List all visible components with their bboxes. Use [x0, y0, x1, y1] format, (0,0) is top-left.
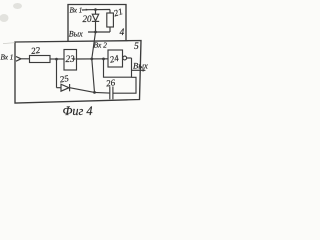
wire: diode 25 to capacitor 26	[70, 88, 95, 93]
wire: node A down to diode 25	[56, 59, 58, 88]
svg-text:Вых: Вых	[69, 30, 83, 39]
wire: to resistor 21 top	[109, 10, 111, 14]
svg-text:Вх 2: Вх 2	[94, 41, 108, 50]
svg-text:Вых: Вых	[133, 60, 148, 70]
wire: junction to capacitor left plate	[95, 91, 110, 94]
wire: input arrow into block 5	[16, 57, 30, 62]
svg-text:Вх 1: Вх 1	[70, 7, 83, 15]
resistor 22	[30, 56, 51, 63]
wire: feedback loop around block 24	[104, 58, 132, 77]
node A junction	[55, 58, 58, 61]
wire: top rail of block 4	[88, 9, 110, 11]
block 5 (main box outline)	[15, 41, 141, 104]
block 24	[108, 50, 123, 67]
svg-text:Вх 1: Вх 1	[1, 54, 14, 62]
wire: resistor 22 to block 23	[50, 58, 64, 60]
block 4 (upper box outline, open bottom shared with block 5 top edge)	[68, 5, 126, 42]
node: junction on output rail	[94, 31, 97, 34]
wire: block 23 to block 24	[77, 58, 109, 60]
wire: to diode 25 anode	[57, 87, 62, 89]
node: bottom junction	[93, 91, 96, 94]
wire: block 24 output	[127, 57, 132, 59]
wire: block 4 output down to input 2 of block 5	[92, 32, 96, 92]
background paper	[0, 0, 153, 120]
wire: output to Вых with arrow	[132, 69, 147, 72]
wire: capacitor 26 to feedback rail	[113, 77, 136, 93]
diode 25	[61, 84, 70, 91]
faint scan smudges top-left	[13, 3, 22, 9]
arrowhead inside block 23	[73, 58, 76, 61]
node B junction (Вх 2 tie)	[90, 58, 93, 61]
wire: input arrow of block 4	[82, 9, 88, 11]
node: feedback tie junction	[102, 58, 105, 61]
diode 20	[92, 10, 99, 32]
svg-text:Фиг 4: Фиг 4	[63, 104, 93, 118]
block 23	[64, 50, 77, 71]
capacitor 26	[110, 87, 113, 100]
wire: resistor 21 bottom lead	[109, 27, 111, 32]
resistor 21	[107, 13, 114, 27]
svg-text:20: 20	[83, 14, 93, 24]
svg-text:5: 5	[134, 42, 139, 52]
faint scan stub left of block 5 top edge	[3, 43, 15, 44]
node: diode 20 top junction	[94, 8, 97, 11]
terminal circle of block 24	[123, 56, 127, 60]
svg-text:4: 4	[120, 28, 125, 38]
wire: output rail of block 4	[88, 31, 110, 33]
